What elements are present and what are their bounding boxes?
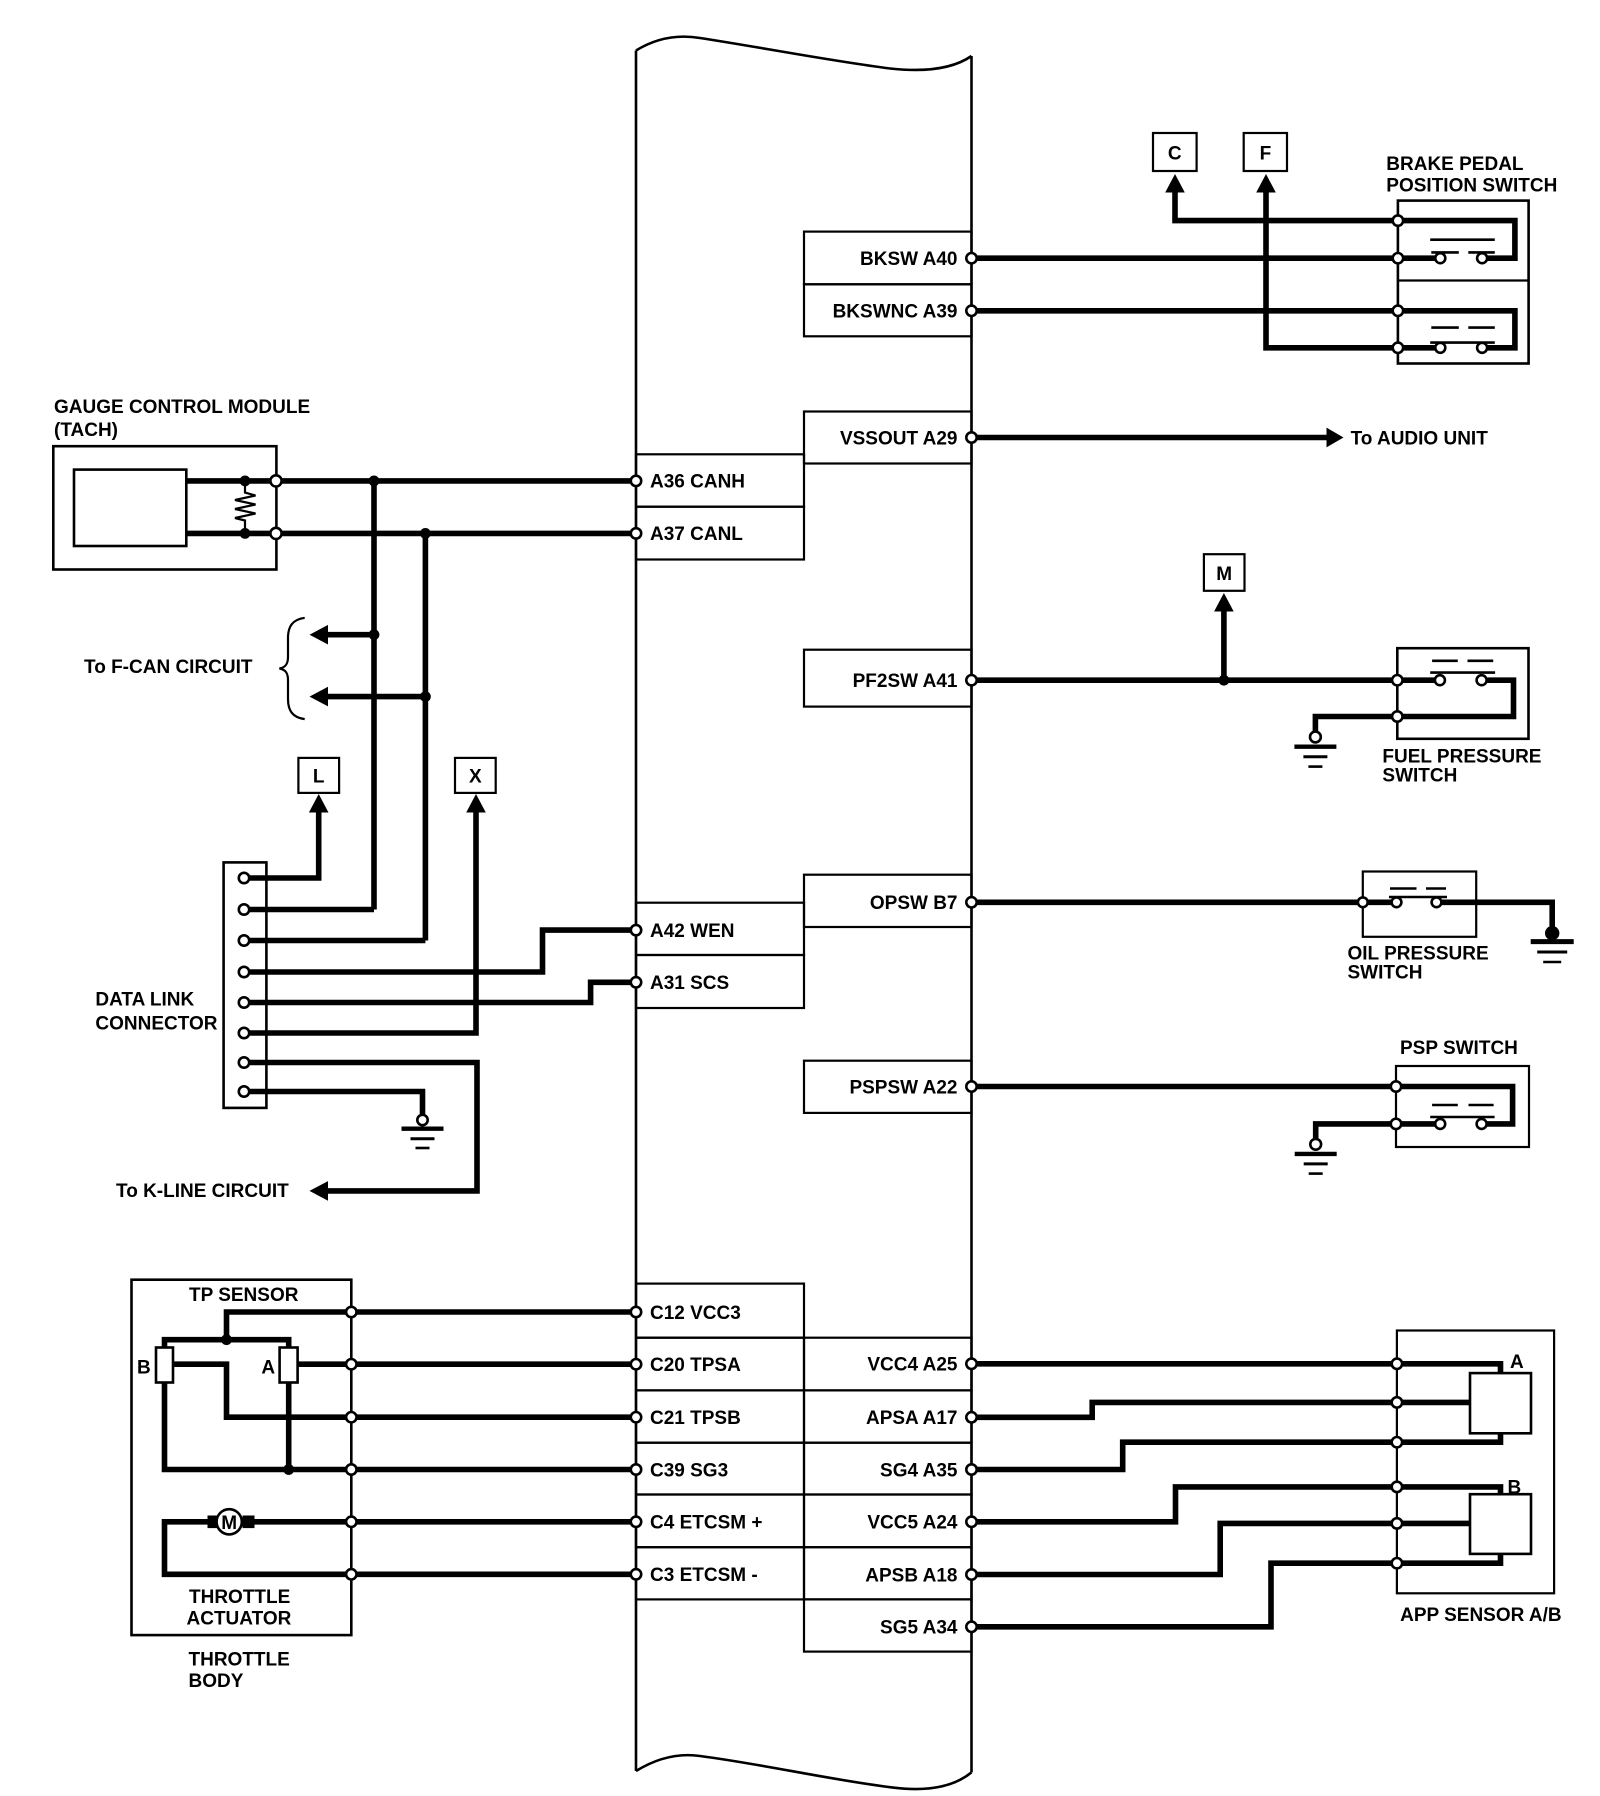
ground (DLC) <box>417 1115 427 1125</box>
APP sensor terminal 2 <box>1392 1397 1402 1407</box>
ground (oil pressure switch) <box>1545 926 1559 940</box>
brake pedal position switch body <box>1398 201 1529 364</box>
connector F box <box>1244 133 1287 171</box>
ECM pin C21 <box>631 1412 641 1422</box>
wire DLC pin5 to A31 SCS <box>244 982 636 1002</box>
wire C20 TPSA <box>298 1361 636 1367</box>
svg-text:A36 CANH: A36 CANH <box>650 472 745 493</box>
svg-text:B: B <box>1508 1478 1522 1499</box>
junction node CANL dropline <box>420 528 431 539</box>
wire CANL vertical to DLC pin3 <box>423 533 429 940</box>
ECM pin C39 <box>631 1464 641 1474</box>
C12 VCC3 pin box <box>636 1284 804 1338</box>
PSP switch contacts <box>1435 1119 1445 1129</box>
connector L box <box>298 758 339 793</box>
DLC pin 1 <box>239 873 249 883</box>
wire C21 TPSB <box>173 1364 636 1417</box>
svg-text:F: F <box>1260 144 1272 165</box>
APP sensor A internal wires <box>1397 1364 1501 1373</box>
wire PF2SW A41 <box>972 677 1399 683</box>
svg-text:VCC5 A24: VCC5 A24 <box>867 1513 958 1534</box>
C3 ETCSM- pin box <box>636 1547 804 1599</box>
junction VCC3 <box>221 1334 232 1345</box>
TB pin VCC3 <box>346 1307 356 1317</box>
ECM pin C12 <box>631 1307 641 1317</box>
wire oil pressure switch to ground <box>1441 902 1552 928</box>
connector X box <box>455 758 496 793</box>
oil pressure switch contacts <box>1392 897 1402 907</box>
ECM pin A35 <box>966 1464 976 1474</box>
svg-text:TP SENSOR: TP SENSOR <box>189 1285 299 1306</box>
wire DLC pin4 to A42 WEN <box>244 930 636 972</box>
svg-text:VCC4 A25: VCC4 A25 <box>867 1355 958 1376</box>
svg-text:THROTTLE: THROTTLE <box>189 1650 290 1671</box>
ECM pin A36 <box>631 476 641 486</box>
ECM pin A18 <box>966 1569 976 1579</box>
data link connector body <box>224 862 267 1108</box>
svg-text:SG4 A35: SG4 A35 <box>880 1460 958 1481</box>
fuel pressure switch terminal 1 <box>1392 675 1402 685</box>
svg-text:ACTUATOR: ACTUATOR <box>187 1609 292 1630</box>
ECM/PCM module band (torn-edge outline) <box>636 37 972 70</box>
ECM pin C20 <box>631 1359 641 1369</box>
module terminal CANH <box>270 475 281 486</box>
TB pin TPSA <box>346 1359 356 1369</box>
svg-text:PSP SWITCH: PSP SWITCH <box>1400 1038 1518 1059</box>
ECM pin A24 <box>966 1517 976 1527</box>
wire PSP switch to ground <box>1316 1124 1399 1139</box>
svg-text:To F-CAN CIRCUIT: To F-CAN CIRCUIT <box>84 657 253 678</box>
DLC pin 6 <box>239 1028 249 1038</box>
APP sensor element A <box>1470 1373 1531 1433</box>
TB pin ETCSM- <box>346 1569 356 1579</box>
throttle body outer box <box>132 1280 352 1635</box>
brake switch 2 blade (closed) <box>1431 326 1495 329</box>
wire SG5 A34 <box>972 1563 1397 1627</box>
svg-text:VSSOUT A29: VSSOUT A29 <box>840 428 958 449</box>
wire brake switch to connector C <box>1175 192 1398 221</box>
svg-text:A37 CANL: A37 CANL <box>650 524 743 545</box>
junction PF2SW/M <box>1219 675 1230 686</box>
TB pin SG3 <box>346 1464 356 1474</box>
oil pressure switch body <box>1363 872 1476 937</box>
PSP switch terminal 1 <box>1391 1081 1401 1091</box>
TP sensor element B <box>156 1348 173 1383</box>
svg-text:PSPSW A22: PSPSW A22 <box>849 1077 957 1098</box>
PSP switch body <box>1396 1066 1529 1147</box>
svg-text:GAUGE CONTROL MODULE: GAUGE CONTROL MODULE <box>54 397 310 418</box>
BKSWNC A39 pin box <box>804 284 972 336</box>
brake switch 2 contacts <box>1435 343 1445 353</box>
PSP switch terminal 2 <box>1391 1119 1401 1129</box>
svg-text:CONNECTOR: CONNECTOR <box>95 1014 217 1035</box>
DLC pin 5 <box>239 997 249 1007</box>
oil pressure switch blade (closed) <box>1390 887 1446 890</box>
wire APSB A18 <box>972 1523 1397 1574</box>
ECM pin A25 <box>966 1359 976 1369</box>
svg-text:SWITCH: SWITCH <box>1382 766 1457 787</box>
svg-text:APSA A17: APSA A17 <box>866 1408 958 1429</box>
fuel pressure switch blade (closed) <box>1432 659 1493 662</box>
junction node CANH dropline <box>369 476 380 487</box>
wire VCC3 link between A and B tops <box>165 1340 289 1348</box>
svg-text:C12 VCC3: C12 VCC3 <box>650 1303 741 1324</box>
VSSOUT A29 pin box <box>804 412 972 464</box>
svg-text:OPSW B7: OPSW B7 <box>870 893 958 914</box>
APP sensor terminal 1 <box>1392 1359 1402 1369</box>
svg-text:(TACH): (TACH) <box>54 420 118 441</box>
svg-text:C4 ETCSM +: C4 ETCSM + <box>650 1513 762 1534</box>
svg-text:C3 ETCSM -: C3 ETCSM - <box>650 1565 758 1586</box>
svg-text:A31 SCS: A31 SCS <box>650 973 729 994</box>
wire OPSW B7 <box>972 899 1392 905</box>
fuel pressure switch contacts <box>1435 675 1445 685</box>
TB pin ETCSM+ <box>346 1517 356 1527</box>
ECM pin C4 <box>631 1517 641 1527</box>
svg-text:C20 TPSA: C20 TPSA <box>650 1355 741 1376</box>
svg-text:BKSW A40: BKSW A40 <box>860 249 957 270</box>
DLC pin 3 <box>239 935 249 945</box>
junction resistor top <box>240 476 251 487</box>
wire brake switch to connector F <box>1266 192 1398 348</box>
DLC pin 4 <box>239 967 249 977</box>
svg-text:To K-LINE CIRCUIT: To K-LINE CIRCUIT <box>116 1181 289 1202</box>
PSPSW A22 pin box <box>804 1061 972 1113</box>
svg-text:M: M <box>221 1513 237 1534</box>
OPSW B7 pin box <box>804 875 972 927</box>
DLC pin 7 <box>239 1057 249 1067</box>
svg-text:L: L <box>313 767 325 788</box>
wire CANH vertical to DLC pin2 <box>371 481 377 910</box>
wire APSA A17 <box>972 1402 1397 1417</box>
PSP switch blade (closed) <box>1432 1104 1494 1107</box>
svg-text:M: M <box>1216 564 1232 585</box>
svg-text:POSITION SWITCH: POSITION SWITCH <box>1386 176 1557 197</box>
A36 CANH pin box <box>636 454 804 506</box>
VCC5 A24 pin box <box>804 1495 972 1548</box>
svg-text:APP SENSOR A/B: APP SENSOR A/B <box>1400 1605 1562 1626</box>
brake switch 1 blade (open) <box>1430 238 1495 241</box>
TP sensor element A <box>280 1348 298 1383</box>
APP sensor B internal wires <box>1397 1487 1501 1494</box>
wire CANL inside module <box>186 531 636 537</box>
DLC pin 2 <box>239 904 249 914</box>
connector M box <box>1204 554 1245 591</box>
APP sensor terminal 6 <box>1392 1558 1402 1568</box>
SG4 A35 pin box <box>804 1443 972 1495</box>
wire BKSW A40 <box>972 255 1399 261</box>
svg-text:OIL PRESSURE: OIL PRESSURE <box>1348 944 1489 965</box>
svg-text:C39 SG3: C39 SG3 <box>650 1460 728 1481</box>
ECM pin A17 <box>966 1412 976 1422</box>
junction resistor bottom <box>240 528 251 539</box>
oil pressure switch terminal <box>1358 897 1368 907</box>
gauge control module outer box <box>53 446 276 569</box>
svg-text:X: X <box>469 767 482 788</box>
ground (fuel pressure switch) <box>1310 732 1321 743</box>
VCC4 A25 pin box <box>804 1338 972 1391</box>
svg-text:SWITCH: SWITCH <box>1348 963 1423 984</box>
brake switch terminal 2 <box>1393 253 1403 263</box>
A31 SCS pin box <box>636 955 804 1008</box>
brake switch terminal 1 <box>1393 215 1403 225</box>
wire CANH inside module <box>186 478 636 484</box>
ECM pin A29 <box>966 432 976 442</box>
A37 CANL pin box <box>636 507 804 560</box>
wire VCC5 A24 <box>972 1487 1397 1522</box>
ECM pin A40 <box>966 253 976 263</box>
gauge control module inner unit <box>74 470 186 546</box>
wire fuel pressure switch to ground <box>1315 717 1398 732</box>
SG5 A34 pin box <box>804 1599 972 1651</box>
wire C12 VCC3 <box>227 1312 637 1340</box>
ECM pin A41 <box>966 675 976 685</box>
A42 WEN pin box <box>636 903 804 955</box>
module terminal CANL <box>270 528 281 539</box>
brake switch 1 contacts <box>1435 253 1445 263</box>
svg-text:B: B <box>137 1358 151 1379</box>
wire A element wiper to SG3 <box>286 1382 292 1469</box>
svg-text:BKSWNC A39: BKSWNC A39 <box>833 302 958 323</box>
wire DLC pin2 stub <box>244 907 374 913</box>
wire DLC pin6 to X connector <box>244 812 476 1033</box>
svg-text:BODY: BODY <box>189 1671 244 1692</box>
brake switch terminal 3 <box>1393 306 1403 316</box>
fuel pressure switch terminal 2 <box>1392 711 1402 721</box>
C21 TPSB pin box <box>636 1390 804 1442</box>
svg-text:APSB A18: APSB A18 <box>865 1565 957 1586</box>
wire DLC pin1 to L connector <box>244 812 319 878</box>
APP sensor element B <box>1470 1494 1531 1554</box>
APSA A17 pin box <box>804 1390 972 1442</box>
APSB A18 pin box <box>804 1547 972 1599</box>
PSP switch internal link <box>1398 1087 1512 1124</box>
ECM pin A37 <box>631 528 641 538</box>
ECM pin A42 <box>631 925 641 935</box>
ECM pin C3 <box>631 1569 641 1579</box>
ECM pin B7 <box>966 897 976 907</box>
APP sensor terminal 4 <box>1392 1482 1402 1492</box>
ECM pin A34 <box>966 1622 976 1632</box>
wire PSPSW A22 <box>972 1084 1399 1090</box>
C4 ETCSM+ pin box <box>636 1495 804 1548</box>
svg-text:THROTTLE: THROTTLE <box>189 1587 290 1608</box>
wire C39 SG3 <box>165 1382 637 1469</box>
C39 SG3 pin box <box>636 1443 804 1495</box>
svg-text:A: A <box>1510 1352 1524 1373</box>
svg-text:C: C <box>1168 144 1182 165</box>
svg-text:FUEL PRESSURE: FUEL PRESSURE <box>1382 747 1541 768</box>
svg-text:A: A <box>261 1358 275 1379</box>
svg-text:PF2SW A41: PF2SW A41 <box>853 671 958 692</box>
junction SG3 <box>283 1464 294 1475</box>
brake switch terminal 4 <box>1393 343 1403 353</box>
fuel pressure switch body <box>1397 648 1528 739</box>
wire DLC pin8 to ground <box>244 1092 423 1115</box>
wire VCC4 A25 <box>972 1361 1397 1367</box>
wire to F-CAN circuit (CANL branch) <box>326 694 425 700</box>
svg-text:C21 TPSB: C21 TPSB <box>650 1408 741 1429</box>
ECM pin A39 <box>966 306 976 316</box>
throttle actuator motor M1 <box>243 1519 637 1525</box>
F-CAN brace <box>279 618 304 719</box>
wire to F-CAN circuit (CANH branch) <box>326 632 374 638</box>
BKSW A40 pin box <box>804 232 972 285</box>
wire PF2SW branch to connector M <box>1221 611 1227 680</box>
DLC pin 8 <box>239 1086 249 1096</box>
ECM pin A22 <box>966 1081 976 1091</box>
APP sensor terminal 3 <box>1392 1437 1402 1447</box>
svg-text:To AUDIO UNIT: To AUDIO UNIT <box>1351 428 1489 449</box>
APP sensor terminal 5 <box>1392 1518 1402 1528</box>
svg-text:DATA LINK: DATA LINK <box>95 990 194 1011</box>
wire DLC pin3 stub <box>244 938 425 944</box>
TB pin TPSB <box>346 1412 356 1422</box>
svg-text:A42 WEN: A42 WEN <box>650 921 734 942</box>
terminating resistor <box>235 481 256 534</box>
wire DLC pin7 to K-LINE circuit <box>244 1063 477 1191</box>
ground (PSP switch) <box>1310 1139 1321 1150</box>
wire SG4 A35 <box>972 1442 1397 1469</box>
svg-text:SG5 A34: SG5 A34 <box>880 1618 958 1639</box>
APP sensor body <box>1397 1331 1554 1594</box>
fuel pressure switch internal link <box>1398 677 1435 683</box>
brake switch 2 (BKSWNC, normally closed) internal link <box>1398 311 1515 348</box>
PF2SW A41 pin box <box>804 650 972 707</box>
ECM pin A31 <box>631 977 641 987</box>
wire BKSWNC A39 <box>972 308 1399 314</box>
C20 TPSA pin box <box>636 1338 804 1391</box>
brake switch 1 (BKSW, normally open) internal link <box>1398 221 1515 259</box>
connector C box <box>1153 133 1197 171</box>
wire VSSOUT A29 to audio unit <box>972 435 1328 441</box>
svg-text:BRAKE PEDAL: BRAKE PEDAL <box>1386 154 1524 175</box>
